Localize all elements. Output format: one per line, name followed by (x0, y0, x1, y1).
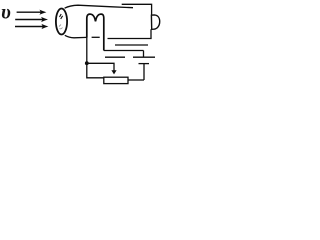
svg-text:υ: υ (1, 2, 11, 24)
